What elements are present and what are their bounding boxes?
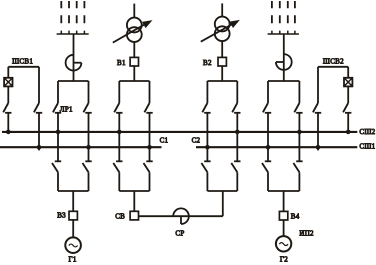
disconnector QS (ШСВ2 left) <box>313 103 321 113</box>
bus СШ1 section С1 <box>0 146 162 148</box>
svg-text:СШ2: СШ2 <box>359 128 375 136</box>
disconnector QS (С2 left upper) <box>201 161 210 172</box>
reactor ЛР1 <box>66 55 82 71</box>
wire to generator <box>72 220 74 238</box>
wire bridge left drop <box>267 81 269 103</box>
disconnector QS (feeder to СШ1) <box>263 103 271 113</box>
disconnector QS (Г2 right) <box>293 161 302 172</box>
junction dot on СШ1 <box>86 145 91 150</box>
disconnector QS (ЛР1 to СШ1) <box>83 103 91 113</box>
wire bridge right drop <box>88 81 90 103</box>
reactor СР <box>173 208 189 224</box>
wire ШСВ2 top bar <box>318 66 348 68</box>
wire below breaker <box>347 86 349 103</box>
wire to breaker <box>221 41 223 57</box>
wire tap to СВ <box>133 191 135 211</box>
breaker СВ <box>130 211 138 220</box>
wire <box>57 172 59 191</box>
svg-text:В4: В4 <box>291 212 300 220</box>
wire <box>267 172 269 191</box>
outgoing lines (dashed) <box>272 1 295 23</box>
disconnector QS (ШСВ2 right) <box>343 103 351 113</box>
wire top stub <box>221 3 223 16</box>
wire <box>236 172 238 191</box>
junction dot on СШ2 <box>297 130 302 135</box>
wire bridge bar <box>58 80 89 82</box>
junction dot on СШ1 <box>37 145 42 150</box>
wire to generator <box>283 220 285 236</box>
wire ШСВ2 left drop <box>317 67 319 103</box>
wire drop crossing buses <box>149 113 151 162</box>
svg-text:В2: В2 <box>203 59 212 67</box>
wire drop crossing buses <box>267 113 269 162</box>
disconnector QS (С2 right upper) <box>231 161 240 172</box>
wire bottom bar <box>207 190 237 192</box>
svg-text:ШСВ2: ШСВ2 <box>323 57 344 65</box>
svg-text:СШ1: СШ1 <box>359 142 375 150</box>
disconnector QS (feeder to СШ2) <box>294 103 302 113</box>
breaker В4 <box>279 211 287 220</box>
wire comb to reactor <box>73 34 75 81</box>
wire to bridge <box>133 66 135 81</box>
junction dot on СШ1 <box>147 145 152 150</box>
svg-text:Г1: Г1 <box>69 256 77 264</box>
wire drop crossing buses <box>118 113 120 162</box>
breaker В2 <box>218 57 226 66</box>
breaker ШСВ1 (box with X) <box>4 78 12 87</box>
disconnector QS (В2 to СШ2) <box>232 103 240 113</box>
wire to bus СШ1 <box>317 113 319 151</box>
wire bridge right drop <box>236 81 238 103</box>
svg-text:В1: В1 <box>117 59 126 67</box>
wire bridge left drop <box>118 81 120 103</box>
breaker В1 <box>130 57 138 66</box>
wire to bus СШ2 <box>347 113 349 132</box>
transformer T2 (two windings with regulation arrow) <box>201 17 240 42</box>
line collector bar with ticks <box>57 31 89 34</box>
wire <box>298 172 300 191</box>
wire below breaker <box>7 86 9 103</box>
disconnector QS (В1 to СШ2) <box>114 103 122 113</box>
junction dot on СШ2 <box>56 130 61 135</box>
wire comb to reactor <box>283 34 285 81</box>
wire drop crossing buses <box>88 113 90 162</box>
wire bridge left drop <box>206 81 208 103</box>
transformer T1 (two windings with regulation arrow) <box>113 18 153 43</box>
generator Г1 <box>65 237 81 253</box>
svg-text:СР: СР <box>175 230 184 238</box>
junction dot on СШ1 <box>316 145 321 150</box>
svg-text:ЛР1: ЛР1 <box>60 106 73 114</box>
wire bottom bar <box>268 190 299 192</box>
wire bridge bar <box>268 80 299 82</box>
wire bridge left drop <box>57 81 59 103</box>
wire ШСВ1 right drop <box>38 67 40 103</box>
wire box lead <box>7 67 9 78</box>
junction dot on СШ2 <box>346 130 351 135</box>
junction dot on СШ2 <box>6 130 11 135</box>
disconnector QS (ЛР1 to СШ2) <box>53 103 61 113</box>
disconnector QS (В1 to СШ1) <box>144 103 152 113</box>
disconnector QS (Г1 right) <box>83 161 92 172</box>
wire drop crossing buses <box>206 113 208 162</box>
junction dot on СШ2 <box>117 130 122 135</box>
wire <box>149 172 151 191</box>
svg-text:СВ: СВ <box>115 213 125 221</box>
wire bridge bar <box>207 80 237 82</box>
junction dot on СШ1 <box>266 145 271 150</box>
wire box lead <box>347 67 349 78</box>
svg-text:ШСВ1: ШСВ1 <box>12 57 33 65</box>
disconnector QS (СВ left upper) <box>113 161 122 172</box>
wire to breaker <box>133 42 135 57</box>
wire bottom bar <box>119 190 149 192</box>
disconnector QS (В2 to СШ1) <box>202 103 210 113</box>
wire bottom bar <box>58 190 89 192</box>
wire ШСВ1 top bar <box>8 66 39 68</box>
wire to bridge <box>221 66 223 81</box>
junction dot on СШ1 <box>205 145 210 150</box>
wire <box>118 172 120 191</box>
wire drop crossing buses <box>236 113 238 162</box>
wire bridge right drop <box>149 81 151 103</box>
breaker В3 <box>69 211 77 220</box>
disconnector QS (ШСВ1 right) <box>34 103 42 113</box>
svg-text:Г2: Г2 <box>280 256 288 264</box>
wire riser to С2 group <box>222 191 224 216</box>
wire bridge bar <box>119 80 149 82</box>
wire top stub <box>133 4 135 18</box>
svg-text:ИП2: ИП2 <box>299 229 314 237</box>
breaker ШСВ2 (box with X) <box>344 78 352 87</box>
outgoing lines (dashed) <box>61 1 84 23</box>
wire tap to В3 <box>72 191 74 211</box>
wire bridge right drop <box>298 81 300 103</box>
svg-text:С1: С1 <box>160 137 169 145</box>
bus СШ1 section С2 <box>196 146 357 148</box>
generator Г2 <box>276 236 291 251</box>
line collector bar with ticks <box>268 31 299 34</box>
disconnector QS (Г1 left) <box>52 161 61 172</box>
wire СВ to СР <box>139 215 223 217</box>
reactor (right feeder) <box>276 54 292 70</box>
wire to bus СШ1 <box>38 113 40 151</box>
svg-text:С2: С2 <box>192 137 201 145</box>
bus СШ2 <box>2 131 357 133</box>
wire <box>88 172 90 191</box>
wire drop crossing buses <box>298 113 300 162</box>
wire to bus СШ2 <box>7 113 9 132</box>
wire <box>206 172 208 191</box>
disconnector QS (СВ right upper) <box>144 161 153 172</box>
wire drop crossing buses <box>57 113 59 162</box>
disconnector QS (Г2 left) <box>262 161 271 172</box>
junction dot on СШ2 <box>235 130 240 135</box>
svg-text:В3: В3 <box>57 211 66 219</box>
disconnector QS (ШСВ1 left) <box>3 103 11 113</box>
wire tap to В4 <box>283 191 285 211</box>
